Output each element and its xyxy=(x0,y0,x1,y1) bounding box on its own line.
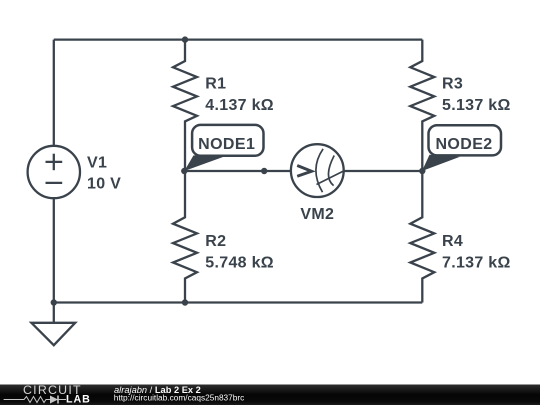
voltmeter VM2 xyxy=(291,144,344,197)
node NODE2 callout xyxy=(422,125,501,171)
svg-text:LAB: LAB xyxy=(66,393,91,405)
ground xyxy=(31,303,75,346)
logo wire glyph xyxy=(4,396,66,404)
wire middle left (NODE1 to VM2) xyxy=(185,170,291,172)
svg-text:V1: V1 xyxy=(87,155,107,172)
svg-text:10 V: 10 V xyxy=(87,176,121,193)
svg-text:7.137 kΩ: 7.137 kΩ xyxy=(442,255,511,272)
svg-text:VM2: VM2 xyxy=(300,206,334,223)
junction NODE2 xyxy=(419,168,425,174)
wire middle right (VM2 to NODE2) xyxy=(344,170,423,172)
resistor R3 xyxy=(410,40,434,171)
resistor R1 xyxy=(173,40,197,171)
resistor R2 xyxy=(173,171,197,303)
svg-text:NODE2: NODE2 xyxy=(435,136,492,153)
wire left rail lower xyxy=(53,198,55,302)
junction bottom left xyxy=(51,299,57,305)
resistor R4 xyxy=(410,171,434,303)
junction bottom (R2/bottom wire) xyxy=(182,299,188,305)
junction top (R1/top wire) xyxy=(182,36,188,42)
wire left rail upper xyxy=(53,40,55,146)
svg-text:R4: R4 xyxy=(442,233,463,250)
svg-text:R3: R3 xyxy=(442,76,463,93)
svg-text:R1: R1 xyxy=(205,76,226,93)
junction NODE1 xyxy=(181,168,187,174)
footer bar xyxy=(0,385,540,405)
voltage source V1 xyxy=(28,146,80,198)
svg-text:R2: R2 xyxy=(205,233,226,250)
svg-text:NODE1: NODE1 xyxy=(198,136,255,153)
junction mid wire xyxy=(261,168,267,174)
svg-text:4.137 kΩ: 4.137 kΩ xyxy=(205,97,274,114)
wire top horizontal xyxy=(54,38,423,40)
node NODE1 callout xyxy=(184,125,263,171)
svg-text:http://circuitlab.com/caqs25n8: http://circuitlab.com/caqs25n837brc xyxy=(114,393,245,403)
svg-text:5.137 kΩ: 5.137 kΩ xyxy=(442,97,511,114)
wire bottom horizontal xyxy=(54,301,423,303)
svg-text:5.748 kΩ: 5.748 kΩ xyxy=(205,255,274,272)
